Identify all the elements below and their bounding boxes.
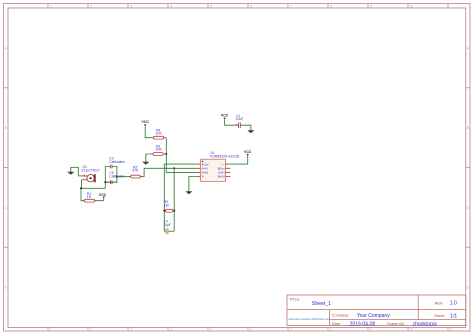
wire AOut feedback vertical — [164, 164, 196, 231]
svg-text:B+IN: B+IN — [218, 175, 225, 179]
svg-text:2: 2 — [90, 4, 92, 8]
svg-text:5: 5 — [210, 4, 212, 8]
svg-text:Drawn By:: Drawn By: — [387, 322, 405, 326]
wire C1 to GND4 — [241, 125, 251, 129]
junction cap block right — [116, 176, 118, 178]
pin stubs left — [197, 164, 201, 176]
wire cap block to R2 — [117, 176, 131, 178]
capacitor C2 — [110, 165, 112, 169]
svg-text:10pF: 10pF — [163, 223, 171, 227]
wire divider node to A+IN — [166, 154, 196, 172]
capacitor C4 — [166, 229, 168, 235]
svg-text:Date:: Date: — [332, 322, 341, 326]
wire VCC4 to C1 — [225, 120, 239, 126]
svg-text:1/1: 1/1 — [450, 313, 457, 319]
svg-text:easyeda.com/editor cS6wLrW4n s: easyeda.com/editor cS6wLrW4n sch1 — [289, 317, 332, 321]
wire V- to GND3 — [189, 177, 197, 189]
svg-text:V-: V- — [202, 175, 205, 179]
resistor R5 — [164, 209, 174, 212]
power flag VCC4 (C1 rail) — [221, 114, 229, 120]
wire feedback bottom rail — [164, 230, 165, 232]
svg-text:10K: 10K — [156, 132, 163, 136]
svg-text:10: 10 — [409, 4, 413, 8]
wire GND1 to mic pin+ — [71, 167, 79, 176]
ground GND4 — [247, 129, 254, 133]
svg-text:11: 11 — [449, 328, 453, 332]
junction R5 right — [173, 210, 175, 212]
svg-text:TITLE:: TITLE: — [289, 297, 300, 301]
svg-text:1: 1 — [50, 328, 52, 332]
resistor R2 — [129, 175, 141, 178]
wire R4 to divider node — [165, 138, 167, 154]
unconnected pin markers — [229, 168, 230, 177]
svg-text:9: 9 — [370, 4, 372, 8]
svg-text:REV:: REV: — [435, 301, 444, 305]
svg-text:VCC: VCC — [221, 114, 229, 118]
junction R5 left — [163, 210, 165, 212]
title block border — [287, 295, 466, 326]
wire A-IN feedback vertical — [173, 168, 175, 231]
svg-text:VCC: VCC — [142, 120, 150, 124]
svg-text:1.0: 1.0 — [450, 301, 457, 307]
wire mic pin- down to node A — [81, 180, 83, 189]
wire node A to cap block — [81, 182, 105, 188]
frame tick marks top edge — [48, 4, 448, 9]
svg-text:2: 2 — [90, 328, 92, 332]
svg-text:ELECTRET: ELECTRET — [82, 169, 101, 173]
wire C5 gap jumpers — [105, 181, 110, 183]
microphone Q1 ELECTRET — [78, 174, 95, 182]
power flag VCC1 — [142, 120, 150, 126]
pin names — [202, 162, 209, 178]
svg-text:10: 10 — [409, 328, 413, 332]
svg-text:NJM8532D-4ZZZB: NJM8532D-4ZZZB — [210, 155, 239, 159]
wire VCC1 to R4 — [145, 127, 152, 138]
wire R3 to GND2 — [146, 154, 150, 159]
svg-text:3: 3 — [130, 4, 132, 8]
svg-text:1: 1 — [50, 4, 52, 8]
svg-text:4: 4 — [170, 4, 172, 8]
pin stubs right — [226, 164, 230, 176]
svg-text:6: 6 — [250, 328, 252, 332]
svg-text:4: 4 — [170, 328, 172, 332]
svg-text:7: 7 — [290, 4, 292, 8]
svg-text:6: 6 — [250, 4, 252, 8]
wire R2 to A-IN — [140, 168, 197, 176]
resistor R4 — [152, 136, 166, 139]
junction divider node — [165, 153, 167, 155]
op-amp U1 — [197, 159, 231, 181]
svg-text:7: 7 — [290, 328, 292, 332]
svg-text:VCC: VCC — [99, 193, 107, 197]
wire R1 to VCC2 — [95, 199, 104, 201]
svg-text:Your Company: Your Company — [357, 313, 390, 319]
svg-text:Sheet:: Sheet: — [434, 314, 445, 318]
svg-text:Calibration: Calibration — [109, 160, 125, 164]
frame tick marks left edge — [4, 88, 9, 247]
svg-text:Company:: Company: — [332, 313, 349, 317]
svg-text:10uF: 10uF — [236, 117, 244, 121]
wire V+ to VCC3 — [229, 156, 247, 164]
svg-text:10K: 10K — [156, 148, 163, 152]
wire right rail — [105, 167, 117, 183]
ground GND3 — [185, 189, 192, 195]
svg-text:8: 8 — [330, 4, 332, 8]
svg-text:9: 9 — [370, 328, 372, 332]
svg-text:VCC: VCC — [244, 150, 252, 154]
svg-text:2019-04-08: 2019-04-08 — [350, 321, 376, 327]
svg-text:chooktopia: chooktopia — [413, 321, 437, 327]
svg-text:Sheet_1: Sheet_1 — [312, 301, 331, 307]
power flag VCC3 — [244, 150, 252, 156]
junction cap block left — [104, 181, 106, 183]
svg-text:3: 3 — [130, 328, 132, 332]
capacitor block: wire left rail — [105, 167, 110, 183]
svg-text:+: + — [235, 123, 237, 127]
ground GND1 (mic ground, top-left) — [67, 167, 74, 175]
svg-text:5: 5 — [210, 328, 212, 332]
capacitor C5 — [110, 180, 112, 184]
frame tick marks right edge — [466, 88, 470, 247]
svg-text:1M: 1M — [164, 203, 169, 207]
junction A-IN node — [173, 167, 175, 169]
ground GND2 — [142, 159, 149, 165]
wire node A down to R1 — [81, 188, 84, 200]
junction node A — [80, 187, 82, 189]
frame tick marks bottom edge — [48, 327, 448, 331]
power flag VCC2 — [99, 193, 107, 199]
capacitor C1 — [239, 123, 241, 128]
svg-text:1K: 1K — [87, 195, 92, 199]
svg-text:47K: 47K — [132, 169, 139, 173]
resistor R3 — [150, 153, 167, 156]
resistor R1 — [83, 199, 96, 202]
svg-text:8: 8 — [330, 328, 332, 332]
